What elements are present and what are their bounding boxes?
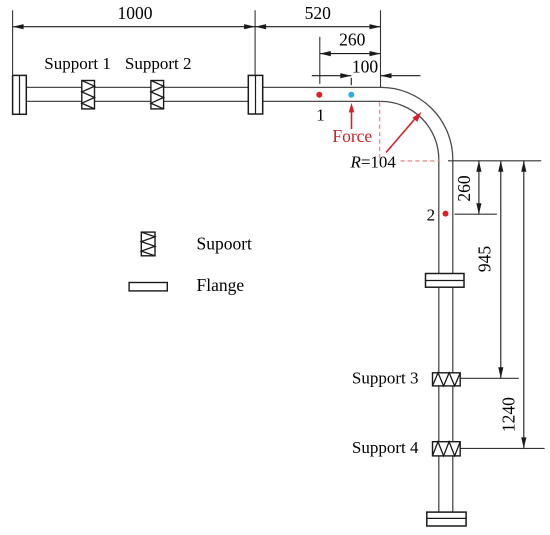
support S1 box with hatch	[82, 81, 95, 109]
svg-text:1240: 1240	[498, 397, 518, 432]
dimension 520: extension line right	[380, 10, 382, 87]
wire: horizontal pipe top line	[26, 86, 381, 88]
dimension 945: dimension line with arrows	[498, 161, 503, 378]
support S3 box with hatch	[433, 373, 461, 386]
wire: horizontal pipe bottom line	[26, 100, 381, 102]
extension line at Support 3 level	[460, 377, 519, 379]
svg-text:100: 100	[352, 56, 379, 76]
node 2: red measurement point	[443, 211, 449, 217]
svg-text:945: 945	[474, 246, 494, 273]
flange F3 (on vertical pipe)	[426, 274, 465, 288]
legend support symbol	[141, 232, 155, 256]
extension line at point 2 level	[455, 213, 497, 215]
svg-text:260: 260	[339, 30, 366, 50]
svg-text:Support 4: Support 4	[352, 438, 419, 457]
red dashed vertical line at bend tangent	[379, 102, 381, 161]
support S2 box with hatch	[151, 81, 164, 109]
red radius arrow pointing at bend centerline	[386, 112, 421, 153]
wire: pipe bend inner arc	[381, 101, 439, 159]
svg-text:Support 3: Support 3	[352, 368, 419, 387]
dimension 260 top: dimension line with arrows	[320, 51, 381, 56]
node 1: red measurement point	[316, 92, 322, 98]
wire: pipe bend outer arc	[381, 87, 453, 159]
flange F4 (bottom of vertical pipe)	[427, 512, 466, 526]
support S4 box with hatch	[433, 442, 461, 456]
svg-text:260: 260	[454, 175, 474, 202]
node Force: blue application point	[348, 92, 354, 98]
legend flange symbol	[129, 283, 167, 291]
red dashed horizontal line at bend center level	[401, 160, 439, 162]
extension line at Support 4 level	[460, 447, 544, 449]
dimension 520: dimension line with arrows	[255, 24, 380, 29]
flange F1 (left end of horizontal pipe)	[13, 75, 27, 114]
dimension 100: left leader with inward arrow	[312, 73, 352, 78]
svg-text:R=104: R=104	[349, 153, 396, 172]
flange F2 (middle of horizontal pipe)	[248, 75, 262, 114]
svg-text:Flange: Flange	[197, 275, 245, 295]
dimension 1000: extension line right	[254, 10, 256, 75]
dimension 100: right leader with inward arrow	[381, 73, 421, 78]
svg-text:2: 2	[427, 206, 436, 225]
svg-text:Force: Force	[332, 126, 372, 146]
dimension 260 top: extension line left	[319, 37, 321, 84]
svg-text:Supoort: Supoort	[197, 233, 253, 253]
Force arrow (red, pointing up at blue dot)	[349, 103, 355, 129]
dimension 1000: dimension line with arrows	[13, 24, 256, 29]
svg-text:1000: 1000	[118, 3, 153, 23]
dimension 1240: dimension line with arrows	[521, 161, 526, 449]
dimension 1000: extension line left	[12, 10, 14, 75]
svg-text:Support 1: Support 1	[44, 54, 111, 73]
wire: vertical pipe right line	[452, 159, 454, 512]
svg-text:520: 520	[305, 3, 332, 23]
svg-text:Support 2: Support 2	[125, 54, 192, 73]
wire: vertical pipe left line	[438, 159, 440, 512]
extension line at top of vertical pipe	[448, 160, 541, 162]
svg-text:1: 1	[316, 105, 325, 124]
dimension 100: tick below left arrow	[350, 78, 352, 85]
dimension 260 right: dimension line with arrows	[476, 161, 481, 214]
